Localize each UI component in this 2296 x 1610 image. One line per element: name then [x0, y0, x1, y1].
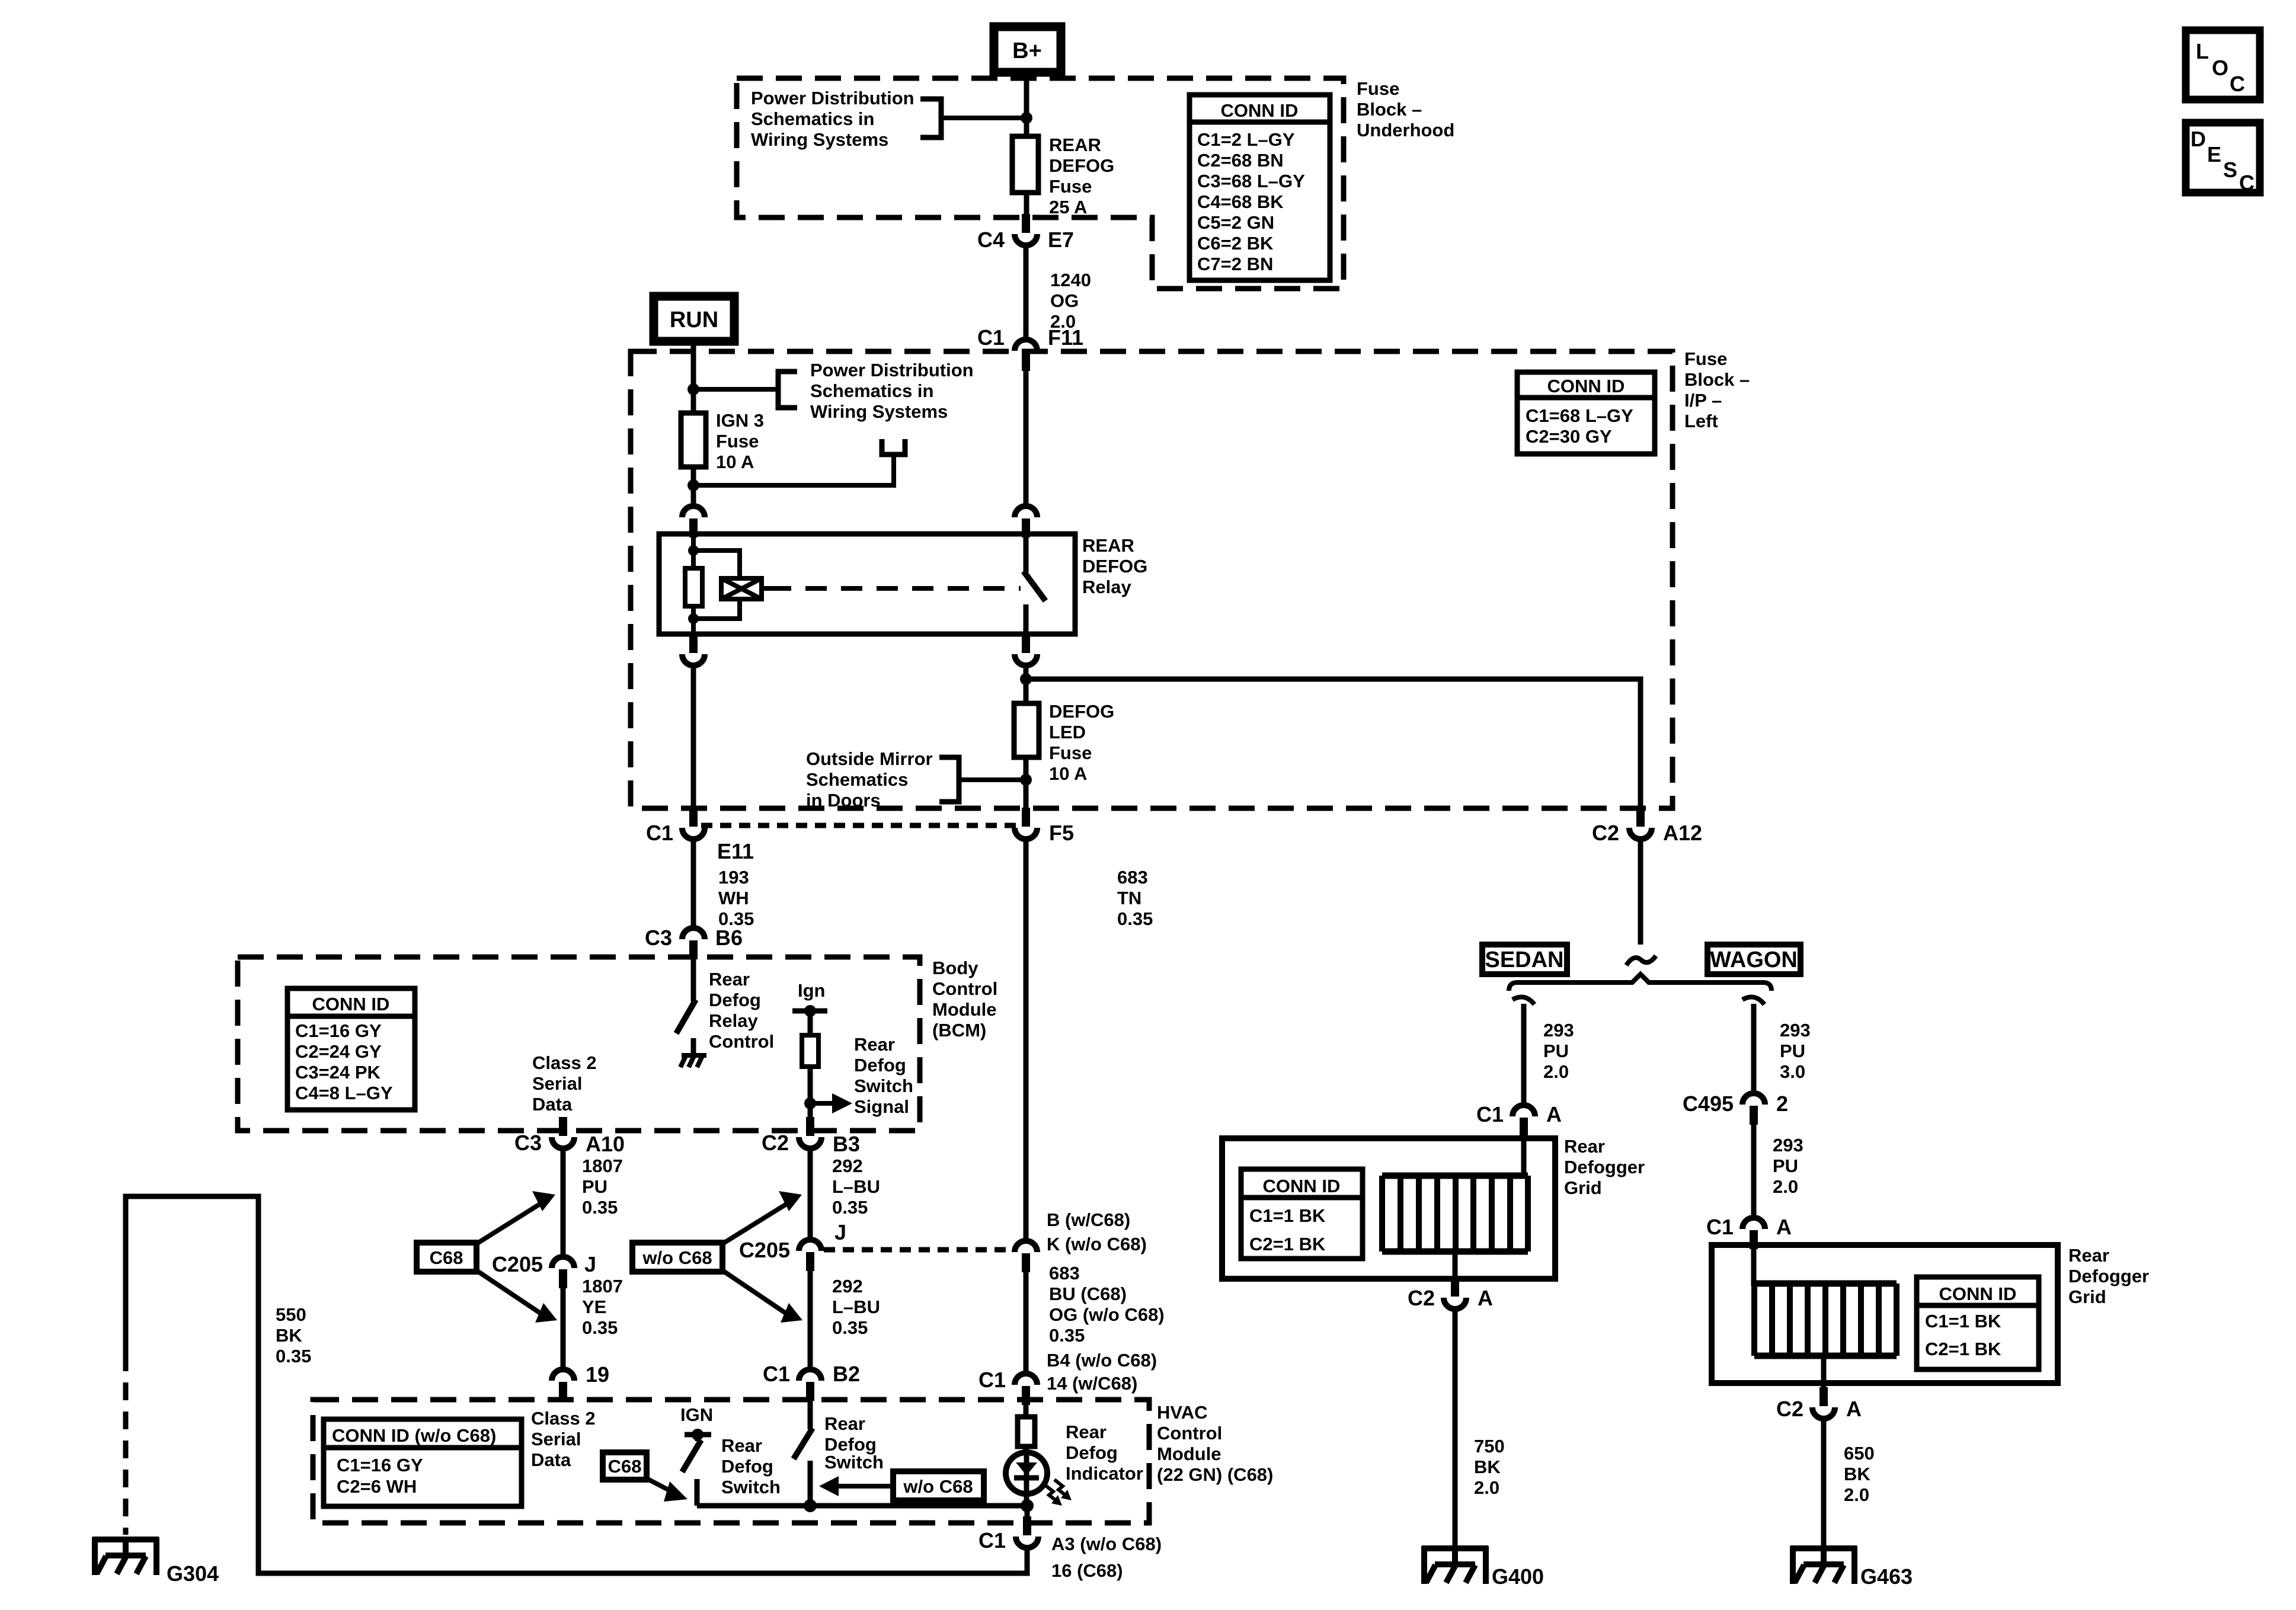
LED light arrows	[1045, 1480, 1072, 1506]
svg-text:C1: C1	[1706, 1215, 1734, 1239]
fuse DEFOG LED 10A	[1014, 703, 1039, 757]
svg-text:10 A: 10 A	[1049, 763, 1087, 784]
svg-text:RUN: RUN	[670, 308, 718, 332]
svg-text:C1=16 GY: C1=16 GY	[295, 1020, 382, 1041]
svg-text:w/o C68: w/o C68	[642, 1247, 712, 1268]
svg-text:CONN ID (w/o C68): CONN ID (w/o C68)	[332, 1425, 496, 1446]
svg-text:Module: Module	[932, 999, 997, 1020]
svg-text:A: A	[1846, 1397, 1862, 1421]
relay bottom connector right	[1015, 634, 1037, 665]
svg-text:OG (w/o C68): OG (w/o C68)	[1049, 1304, 1165, 1325]
svg-text:Block –: Block –	[1684, 369, 1750, 390]
svg-text:C2=24 GY: C2=24 GY	[295, 1041, 382, 1062]
svg-text:Power Distribution: Power Distribution	[751, 88, 914, 108]
svg-text:Serial: Serial	[532, 1073, 582, 1094]
svg-text:Fuse: Fuse	[1357, 78, 1399, 99]
svg-text:PU: PU	[1773, 1156, 1798, 1176]
svg-text:Left: Left	[1684, 411, 1718, 431]
label Outside Mirror Schematics in Doors	[806, 748, 933, 811]
svg-text:Switch: Switch	[721, 1477, 781, 1497]
fuse block I/P left dashed box	[631, 351, 1673, 808]
svg-text:C1: C1	[978, 1528, 1006, 1553]
connector C3 A10	[514, 1117, 625, 1156]
svg-text:Rear: Rear	[854, 1034, 895, 1055]
switch output rail	[697, 1503, 1027, 1509]
svg-text:Rear: Rear	[824, 1413, 865, 1434]
splice box w/o C68	[632, 1243, 722, 1272]
svg-text:w/o C68: w/o C68	[903, 1476, 973, 1497]
labels B4 14 pins	[1047, 1350, 1157, 1394]
svg-text:Rear: Rear	[721, 1435, 762, 1456]
svg-text:1807: 1807	[582, 1156, 623, 1176]
ground G463	[1790, 1546, 1913, 1589]
svg-text:D: D	[2191, 127, 2206, 151]
relay coil branch wires	[693, 534, 740, 634]
wire to power distribution note (I/P)	[693, 387, 778, 392]
svg-text:650: 650	[1844, 1443, 1875, 1464]
arrow C68 to PU wire	[477, 1191, 555, 1244]
svg-text:Data: Data	[532, 1094, 573, 1115]
svg-text:C1=2 L–GY: C1=2 L–GY	[1197, 129, 1295, 150]
svg-text:0.35: 0.35	[832, 1317, 868, 1338]
switch IGN rear defog (C68)	[682, 1440, 701, 1506]
label REAR DEFOG Relay	[1082, 535, 1147, 597]
svg-text:BK: BK	[276, 1325, 302, 1346]
svg-text:Class 2: Class 2	[531, 1408, 596, 1429]
wire to C2 A12	[1026, 679, 1641, 812]
label Fuse Block - Underhood	[1357, 78, 1454, 140]
svg-text:A: A	[1776, 1215, 1792, 1239]
wire sedan grid to C2	[1453, 1251, 1458, 1279]
connector C4 E7	[977, 214, 1074, 252]
svg-text:OG: OG	[1050, 290, 1079, 311]
svg-text:3.0: 3.0	[1780, 1061, 1805, 1082]
label Rear Defogger Grid (sedan)	[1564, 1136, 1645, 1198]
svg-text:B4 (w/o C68): B4 (w/o C68)	[1047, 1350, 1157, 1371]
wire into sedan grid	[1521, 1135, 1527, 1176]
svg-text:DEFOG: DEFOG	[1082, 556, 1147, 577]
node IGN3 junction	[687, 479, 699, 491]
wire 650 BK 2.0	[1824, 1419, 1875, 1564]
svg-text:193: 193	[718, 867, 749, 888]
BCM dashed box	[238, 957, 920, 1131]
svg-text:Wiring Systems: Wiring Systems	[810, 401, 948, 422]
svg-text:C68: C68	[608, 1456, 642, 1477]
svg-text:WH: WH	[718, 888, 749, 908]
wagon branch hook	[1742, 997, 1764, 1005]
svg-text:25 A: 25 A	[1049, 197, 1087, 217]
svg-text:C3=68 L–GY: C3=68 L–GY	[1197, 171, 1305, 191]
svg-text:Power Distribution: Power Distribution	[810, 360, 974, 380]
wire RUN feed	[691, 341, 696, 413]
svg-text:C1: C1	[1476, 1102, 1504, 1126]
bracket power distribution (underhood)	[920, 99, 941, 137]
conn id table I/P	[1517, 372, 1655, 454]
svg-text:Fuse: Fuse	[1684, 348, 1727, 369]
svg-text:C1: C1	[763, 1362, 790, 1386]
svg-text:Underhood: Underhood	[1357, 120, 1454, 140]
svg-text:Defog: Defog	[721, 1456, 773, 1477]
node outside mirror tap	[1020, 774, 1032, 786]
svg-text:CONN ID: CONN ID	[1547, 376, 1625, 396]
svg-text:550: 550	[276, 1304, 306, 1325]
svg-text:CONN ID: CONN ID	[1221, 100, 1299, 121]
svg-text:WAGON: WAGON	[1710, 948, 1798, 972]
connector C1 A wagon	[1706, 1215, 1792, 1249]
option brace	[1509, 974, 1771, 991]
label Rear Defog Switch (w/o C68)	[824, 1413, 884, 1473]
wire to power distribution note	[941, 116, 1027, 120]
svg-text:C4=8 L–GY: C4=8 L–GY	[295, 1083, 393, 1103]
svg-text:Fuse: Fuse	[1049, 742, 1092, 763]
node relay coil top	[688, 545, 699, 556]
arrow w/o C68 to switch	[819, 1476, 893, 1496]
svg-text:2.0: 2.0	[1773, 1176, 1798, 1197]
svg-text:C2=6 WH: C2=6 WH	[337, 1476, 417, 1497]
svg-text:683: 683	[1117, 867, 1148, 888]
node LED rail junction	[1021, 1499, 1034, 1512]
fuse REAR DEFOG 25A	[1012, 136, 1038, 193]
wire 1240 OG 2.0	[1026, 247, 1091, 338]
svg-text:LED: LED	[1049, 722, 1086, 742]
svg-text:C5=2 GN: C5=2 GN	[1197, 212, 1274, 233]
svg-text:C3=24 PK: C3=24 PK	[295, 1062, 381, 1083]
label Rear Defogger Grid (wagon)	[2068, 1245, 2149, 1307]
svg-text:0.35: 0.35	[582, 1317, 618, 1338]
svg-text:O: O	[2212, 56, 2228, 80]
connector C205 (right)	[739, 1238, 821, 1271]
svg-text:REAR: REAR	[1082, 535, 1134, 556]
svg-text:Schematics in: Schematics in	[751, 108, 874, 129]
relay control switch	[676, 958, 696, 1055]
wire IGN3 to relay	[691, 467, 696, 504]
node B+ junction	[1021, 112, 1032, 124]
svg-text:Ign: Ign	[798, 980, 826, 1001]
svg-text:SEDAN: SEDAN	[1485, 948, 1563, 972]
svg-text:Signal: Signal	[854, 1096, 909, 1117]
relay actuator X box	[721, 578, 770, 599]
svg-text:Indicator: Indicator	[1066, 1463, 1143, 1484]
svg-text:B+: B+	[1012, 39, 1042, 63]
wire 683 TN 0.35	[1026, 841, 1153, 1239]
connector C3 B6	[645, 926, 743, 959]
label Rear Defog Relay Control	[709, 969, 774, 1052]
wire wagon grid to C2	[1821, 1356, 1827, 1388]
svg-text:B (w/C68): B (w/C68)	[1047, 1209, 1130, 1230]
arrow w/o C68 to lower 292 wire	[722, 1270, 802, 1323]
svg-text:YE: YE	[582, 1297, 606, 1317]
wire 293 PU 3.0 wagon	[1754, 1004, 1811, 1092]
svg-text:19: 19	[586, 1362, 609, 1387]
svg-text:293: 293	[1543, 1020, 1574, 1041]
svg-text:CONN ID: CONN ID	[1939, 1283, 2017, 1304]
node relay coil bottom	[688, 613, 699, 624]
wire 292 L-BU 0.35	[810, 1150, 880, 1238]
svg-text:16 (C68): 16 (C68)	[1051, 1560, 1123, 1581]
wire break hook	[1626, 956, 1656, 965]
svg-text:292: 292	[832, 1276, 863, 1297]
connector 19	[552, 1362, 609, 1401]
wire relay to C1 E11	[691, 668, 696, 812]
connector C2 A12	[1592, 808, 1702, 845]
svg-text:(BCM): (BCM)	[932, 1020, 986, 1041]
HVAC dashed box	[313, 1400, 1149, 1523]
svg-text:Rear: Rear	[1564, 1136, 1605, 1157]
svg-text:683: 683	[1049, 1263, 1080, 1283]
splice box w/o C68 (HVAC)	[893, 1471, 984, 1500]
svg-text:PU: PU	[582, 1176, 607, 1197]
svg-text:B6: B6	[715, 926, 743, 950]
svg-text:A12: A12	[1663, 821, 1702, 845]
relay top connector right	[1015, 506, 1037, 537]
bracket power distribution (I/P)	[778, 372, 797, 408]
svg-text:E11: E11	[717, 839, 754, 863]
connector C495 2	[1683, 1092, 1788, 1125]
svg-text:Fuse: Fuse	[716, 431, 759, 452]
wire note to IGN3 branch	[693, 454, 894, 485]
svg-text:C4=68 BK: C4=68 BK	[1197, 191, 1284, 212]
svg-text:Defogger: Defogger	[1564, 1157, 1645, 1177]
wire 1807 PU 0.35	[563, 1150, 623, 1255]
node rail junction	[804, 1499, 817, 1512]
svg-text:Defog: Defog	[1066, 1442, 1118, 1463]
svg-text:Rear: Rear	[1066, 1422, 1107, 1442]
power symbol RUN	[654, 296, 734, 341]
svg-text:K (w/o C68): K (w/o C68)	[1047, 1234, 1147, 1254]
svg-text:C2=1 BK: C2=1 BK	[1249, 1234, 1326, 1254]
relay coil	[685, 568, 702, 606]
wire 292 L-BU 0.35 lower	[810, 1271, 880, 1368]
connector C1 E11	[646, 808, 754, 863]
wagon rear defogger grid box	[1712, 1245, 2058, 1383]
svg-text:Rear: Rear	[709, 969, 750, 990]
svg-text:J: J	[584, 1252, 596, 1276]
svg-text:1240: 1240	[1050, 270, 1091, 290]
wire 193 WH 0.35	[693, 841, 754, 929]
ground G304	[92, 1537, 219, 1586]
connector C205 J (left)	[492, 1252, 596, 1288]
wire C1 14 into HVAC	[1024, 1404, 1029, 1417]
label Body Control Module (BCM)	[932, 958, 997, 1041]
arrow C68 to switch	[647, 1478, 687, 1502]
svg-text:Outside Mirror: Outside Mirror	[806, 748, 933, 769]
svg-text:B3: B3	[833, 1132, 860, 1156]
svg-text:Data: Data	[531, 1449, 571, 1470]
conn id table BCM	[287, 988, 415, 1110]
svg-text:Defog: Defog	[854, 1055, 906, 1076]
svg-text:A10: A10	[586, 1132, 625, 1156]
svg-text:2.0: 2.0	[1474, 1477, 1499, 1498]
svg-text:Switch: Switch	[854, 1076, 913, 1096]
svg-text:293: 293	[1780, 1020, 1811, 1041]
svg-text:G400: G400	[1492, 1564, 1544, 1589]
svg-text:IGN 3: IGN 3	[716, 410, 764, 431]
wire F11 to relay	[1024, 371, 1029, 504]
svg-text:C: C	[2239, 171, 2255, 195]
sedan grid element	[1382, 1176, 1528, 1251]
wire LED to A3	[1025, 1506, 1030, 1518]
w/o C68 dashed link	[824, 1247, 1011, 1253]
option tag WAGON	[1707, 945, 1801, 974]
svg-text:E7: E7	[1048, 228, 1074, 252]
node Ign	[792, 980, 827, 1035]
svg-text:Body: Body	[932, 958, 978, 978]
switch rear defog (w/o C68)	[794, 1428, 813, 1509]
sedan rear defogger grid box	[1222, 1138, 1555, 1279]
svg-text:Control: Control	[1157, 1423, 1222, 1443]
svg-text:PU: PU	[1780, 1041, 1805, 1061]
conn id table wagon grid	[1917, 1277, 2039, 1369]
svg-text:C2: C2	[1408, 1286, 1435, 1310]
svg-text:CONN ID: CONN ID	[312, 994, 390, 1014]
svg-text:750: 750	[1474, 1436, 1505, 1457]
label Rear Defog Switch (C68)	[721, 1435, 781, 1497]
svg-text:J: J	[834, 1220, 846, 1244]
LED rear defog indicator	[1006, 1446, 1047, 1506]
connector link dashed line	[701, 823, 1019, 828]
svg-text:Switch: Switch	[824, 1452, 884, 1473]
svg-text:IGN: IGN	[680, 1404, 713, 1425]
svg-text:C3: C3	[514, 1131, 542, 1155]
node switch signal junction	[804, 1097, 816, 1109]
svg-text:Grid: Grid	[1564, 1177, 1602, 1198]
svg-text:CONN ID: CONN ID	[1263, 1176, 1341, 1196]
wire 683 BU/OG 0.35	[1026, 1263, 1165, 1372]
label IGN 3 Fuse 10 A	[716, 410, 764, 472]
power symbol B+	[994, 27, 1061, 72]
ground G400	[1422, 1546, 1544, 1589]
ground BCM internal	[680, 1055, 706, 1067]
svg-text:C2: C2	[1776, 1397, 1803, 1421]
svg-text:C205: C205	[492, 1252, 543, 1276]
label Fuse Block - I/P - Left	[1684, 348, 1750, 431]
conn id table sedan grid	[1241, 1169, 1363, 1259]
svg-text:I/P –: I/P –	[1684, 390, 1722, 411]
conn id table underhood	[1189, 95, 1330, 280]
svg-text:L–BU: L–BU	[832, 1176, 880, 1197]
connector C2 A sedan	[1408, 1278, 1493, 1310]
label Rear Defog Indicator	[1066, 1422, 1143, 1484]
svg-text:C: C	[2230, 72, 2245, 96]
relay bottom connector left	[682, 634, 705, 665]
svg-text:(22 GN) (C68): (22 GN) (C68)	[1157, 1464, 1273, 1485]
connector F5	[1015, 808, 1074, 845]
wire relay to defog led fuse	[1024, 668, 1029, 703]
svg-text:C6=2 BK: C6=2 BK	[1197, 233, 1274, 254]
splice box C68 (HVAC)	[603, 1452, 647, 1480]
svg-text:C1=1 BK: C1=1 BK	[1249, 1205, 1326, 1226]
fuse block underhood dashed box	[737, 78, 1344, 289]
svg-text:0.35: 0.35	[1049, 1325, 1085, 1346]
arrow w/o C68 to upper 292 wire	[722, 1191, 802, 1244]
relay REAR DEFOG box	[659, 534, 1075, 634]
svg-text:C1=16 GY: C1=16 GY	[337, 1455, 423, 1475]
connector C2 B3	[762, 1117, 860, 1156]
svg-text:Rear: Rear	[2068, 1245, 2109, 1266]
label DEFOG LED Fuse 10 A	[1049, 701, 1114, 784]
svg-text:2: 2	[1776, 1092, 1788, 1116]
bracket outside mirror	[939, 757, 959, 802]
svg-text:Control: Control	[932, 978, 997, 999]
svg-text:Wiring Systems: Wiring Systems	[751, 129, 888, 150]
svg-text:Relay: Relay	[1082, 577, 1131, 597]
wire B+ feed	[1024, 72, 1029, 215]
svg-text:C1=68 L–GY: C1=68 L–GY	[1526, 405, 1633, 426]
svg-text:Class 2: Class 2	[532, 1052, 597, 1073]
svg-text:293: 293	[1773, 1135, 1803, 1156]
wire A12 down	[1638, 841, 1643, 945]
wire 293 PU 2.0 sedan	[1524, 1004, 1574, 1103]
svg-text:C2=1 BK: C2=1 BK	[1925, 1339, 2001, 1359]
label REAR DEFOG Fuse 25 A	[1049, 135, 1114, 217]
connector C1 F11	[977, 325, 1083, 371]
svg-text:292: 292	[832, 1156, 863, 1176]
wire 750 BK 2.0	[1455, 1310, 1505, 1564]
svg-text:0.35: 0.35	[1117, 908, 1153, 929]
svg-text:PU: PU	[1543, 1041, 1569, 1061]
svg-text:C1: C1	[646, 821, 673, 845]
bracket under note	[882, 439, 905, 454]
label Class 2 Serial Data (BCM)	[532, 1052, 597, 1115]
svg-text:in Doors: in Doors	[806, 790, 881, 811]
svg-text:Defogger: Defogger	[2068, 1266, 2149, 1286]
arrow rear defog switch signal	[810, 1093, 852, 1113]
label Power Distribution Schematics in Wiring Systems (I/P)	[810, 360, 974, 422]
svg-text:C205: C205	[739, 1238, 790, 1262]
relay top connector left	[682, 506, 705, 537]
svg-text:10 A: 10 A	[716, 452, 754, 472]
svg-text:Block –: Block –	[1357, 99, 1422, 120]
svg-text:HVAC: HVAC	[1157, 1402, 1208, 1423]
svg-text:BU (C68): BU (C68)	[1049, 1283, 1127, 1304]
wire defog led fuse down	[1024, 757, 1029, 812]
fuse IGN 3 10A	[681, 413, 706, 467]
wagon grid element	[1754, 1283, 1897, 1356]
label Rear Defog Switch Signal	[854, 1034, 913, 1117]
svg-text:Defog: Defog	[709, 990, 761, 1010]
svg-text:Schematics in: Schematics in	[810, 380, 933, 401]
node RUN junction	[687, 383, 699, 395]
wire 1807 YE 0.35	[563, 1276, 623, 1368]
svg-text:0.35: 0.35	[276, 1346, 311, 1366]
svg-text:14 (w/C68): 14 (w/C68)	[1047, 1373, 1137, 1394]
svg-text:G304: G304	[167, 1561, 219, 1586]
connector C1 A sedan	[1476, 1102, 1562, 1137]
svg-text:A3 (w/o C68): A3 (w/o C68)	[1051, 1534, 1162, 1554]
DESC reference box	[2186, 123, 2260, 195]
svg-text:Relay: Relay	[709, 1010, 758, 1031]
sedan branch hook	[1512, 997, 1534, 1005]
label Power Distribution Schematics in Wiring Systems (underhood)	[751, 88, 914, 150]
svg-text:Module: Module	[1157, 1443, 1221, 1464]
svg-text:A: A	[1546, 1102, 1562, 1126]
svg-text:L: L	[2196, 39, 2209, 63]
wire 293 PU 2.0 wagon	[1754, 1125, 1803, 1216]
svg-text:C1=1 BK: C1=1 BK	[1925, 1311, 2001, 1331]
svg-text:C2=68 BN: C2=68 BN	[1197, 150, 1284, 171]
svg-text:BK: BK	[1844, 1464, 1870, 1484]
connector C2 A wagon	[1776, 1387, 1862, 1421]
svg-text:1807: 1807	[582, 1276, 623, 1297]
svg-text:Grid: Grid	[2068, 1286, 2106, 1307]
svg-text:0.35: 0.35	[582, 1197, 618, 1218]
wire into wagon grid	[1751, 1248, 1757, 1286]
svg-text:C3: C3	[645, 926, 672, 950]
wire 550 BK 0.35 ground loop	[126, 1196, 1027, 1573]
connector C1 14	[978, 1368, 1037, 1405]
svg-text:C1: C1	[977, 325, 1005, 350]
svg-text:C2=30 GY: C2=30 GY	[1526, 426, 1612, 447]
